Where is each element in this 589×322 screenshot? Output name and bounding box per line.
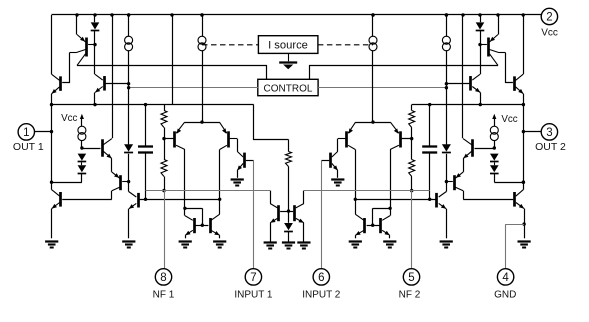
svg-text:Vcc: Vcc: [61, 113, 77, 124]
svg-text:NF 1: NF 1: [153, 289, 175, 300]
svg-text:INPUT 2: INPUT 2: [302, 289, 341, 300]
svg-text:7: 7: [250, 272, 256, 284]
svg-text:CONTROL: CONTROL: [264, 84, 313, 95]
svg-text:Vcc: Vcc: [501, 114, 517, 125]
svg-text:2: 2: [546, 12, 552, 24]
svg-text:OUT 2: OUT 2: [535, 141, 566, 153]
svg-text:8: 8: [160, 272, 166, 284]
svg-text:Vcc: Vcc: [541, 28, 558, 39]
svg-text:NF 2: NF 2: [399, 289, 421, 300]
svg-text:6: 6: [318, 272, 324, 284]
svg-text:5: 5: [408, 272, 414, 284]
svg-text:4: 4: [502, 272, 509, 284]
svg-text:3: 3: [546, 127, 552, 139]
svg-text:I source: I source: [268, 40, 308, 52]
svg-text:INPUT 1: INPUT 1: [234, 289, 273, 300]
svg-text:1: 1: [23, 127, 29, 139]
svg-text:OUT 1: OUT 1: [13, 141, 44, 153]
svg-text:GND: GND: [494, 289, 516, 300]
